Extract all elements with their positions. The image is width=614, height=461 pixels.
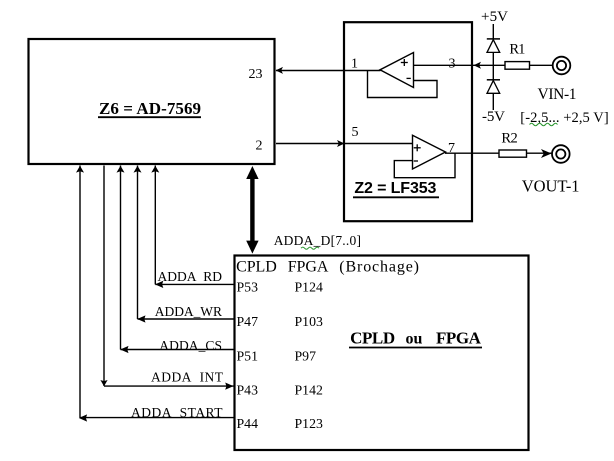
svg-text:ADDA RD: ADDA RD xyxy=(158,269,223,284)
svg-text:Z2 = LF353: Z2 = LF353 xyxy=(354,180,436,197)
wire ADC pin 2 to op-amp pin 5 xyxy=(276,143,413,145)
svg-text:CPLD: CPLD xyxy=(236,259,277,276)
wire ADDA INT xyxy=(100,166,234,390)
wire pin 3 to clamp node and R1 xyxy=(414,64,553,66)
wire ADDA START xyxy=(76,166,234,422)
resistor R1 xyxy=(505,62,530,70)
label Z2 = LF353 xyxy=(353,180,439,197)
arrowhead into pin 3 xyxy=(474,62,482,69)
U1B feedback wire xyxy=(394,153,455,178)
svg-text:VOUT-1: VOUT-1 xyxy=(522,177,580,196)
wire ADDA_CS xyxy=(117,166,235,354)
wire ADDA_WR xyxy=(134,166,235,323)
svg-text:P103: P103 xyxy=(295,314,323,329)
svg-text:ADDA_WR: ADDA_WR xyxy=(155,304,222,319)
op-amp U1A triangle xyxy=(380,53,414,88)
svg-text:ADDA_CS: ADDA_CS xyxy=(159,338,222,353)
svg-text:P44: P44 xyxy=(237,416,259,431)
svg-text:(Brochage): (Brochage) xyxy=(339,259,419,276)
svg-text:P142: P142 xyxy=(295,383,323,398)
svg-text:[-2,5... +2,5 V]: [-2,5... +2,5 V] xyxy=(520,110,608,126)
svg-text:R2: R2 xyxy=(501,131,517,147)
diode D2 xyxy=(487,80,500,94)
grammar squiggle under ADDA_D xyxy=(301,247,319,249)
amp box Z2 xyxy=(344,22,472,221)
svg-text:P123: P123 xyxy=(295,416,323,431)
svg-text:+5V: +5V xyxy=(481,9,508,25)
svg-text:1: 1 xyxy=(351,56,358,71)
label CPLD ou FPGA xyxy=(349,329,482,348)
U1A plus mark xyxy=(401,59,408,66)
svg-text:P43: P43 xyxy=(237,383,259,398)
CPLD box xyxy=(235,256,529,451)
svg-text:2: 2 xyxy=(256,138,263,153)
resistor R2 xyxy=(499,150,527,157)
U1B minus mark xyxy=(414,160,418,162)
arrowhead into pin 5 xyxy=(337,140,345,147)
svg-text:P47: P47 xyxy=(237,314,259,329)
wire pin 7 to VOUT-1 xyxy=(445,152,552,154)
svg-text:CPLD: CPLD xyxy=(350,329,395,348)
supply clamp rail wire xyxy=(492,24,494,110)
diode D1 xyxy=(487,39,500,53)
svg-text:-5V: -5V xyxy=(482,109,505,125)
svg-text:R1: R1 xyxy=(509,42,525,58)
svg-text:P124: P124 xyxy=(295,280,323,295)
svg-text:23: 23 xyxy=(249,67,263,82)
svg-text:FPGA: FPGA xyxy=(436,329,482,348)
U1B plus mark xyxy=(414,144,421,151)
svg-text:P51: P51 xyxy=(237,349,259,364)
label Z6 = AD-7569 xyxy=(98,99,201,118)
connector VOUT-1 xyxy=(552,145,570,163)
U1A feedback wire xyxy=(368,71,438,98)
svg-text:3: 3 xyxy=(449,56,456,71)
arrowhead into VOUT-1 xyxy=(541,149,552,158)
wire op-amp U1A output to ADC pin 23 xyxy=(276,70,381,72)
connector VIN-1 xyxy=(553,57,571,75)
arrowhead into pin 23 xyxy=(276,67,283,74)
U1A minus mark xyxy=(407,77,411,79)
grammar squiggle xyxy=(530,123,558,126)
svg-text:Z6 = AD-7569: Z6 = AD-7569 xyxy=(99,99,201,118)
svg-text:ADDA START: ADDA START xyxy=(131,405,223,420)
svg-text:P97: P97 xyxy=(295,349,317,364)
svg-text:ou: ou xyxy=(406,331,423,348)
svg-text:P53: P53 xyxy=(237,280,259,295)
svg-text:ADDA_D[7..0]: ADDA_D[7..0] xyxy=(274,233,361,248)
ADC box Z6 xyxy=(29,39,275,164)
bus arrow ADDA_D (thick double arrow) xyxy=(246,166,258,254)
svg-text:FPGA: FPGA xyxy=(288,259,329,276)
svg-text:VIN-1: VIN-1 xyxy=(538,86,577,103)
svg-text:ADDA INT: ADDA INT xyxy=(151,370,224,385)
op-amp U1B triangle xyxy=(413,135,446,169)
svg-text:5: 5 xyxy=(352,125,359,140)
wire ADDA RD xyxy=(151,166,234,289)
